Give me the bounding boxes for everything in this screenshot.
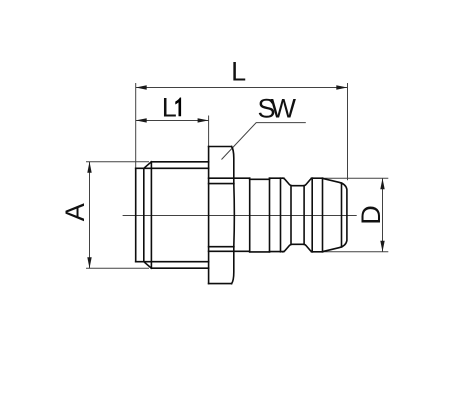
svg-text:A: A bbox=[60, 203, 90, 221]
svg-text:D: D bbox=[356, 205, 386, 225]
svg-text:SW: SW bbox=[257, 94, 296, 124]
svg-text:L: L bbox=[162, 92, 177, 122]
svg-text:L: L bbox=[231, 57, 246, 87]
